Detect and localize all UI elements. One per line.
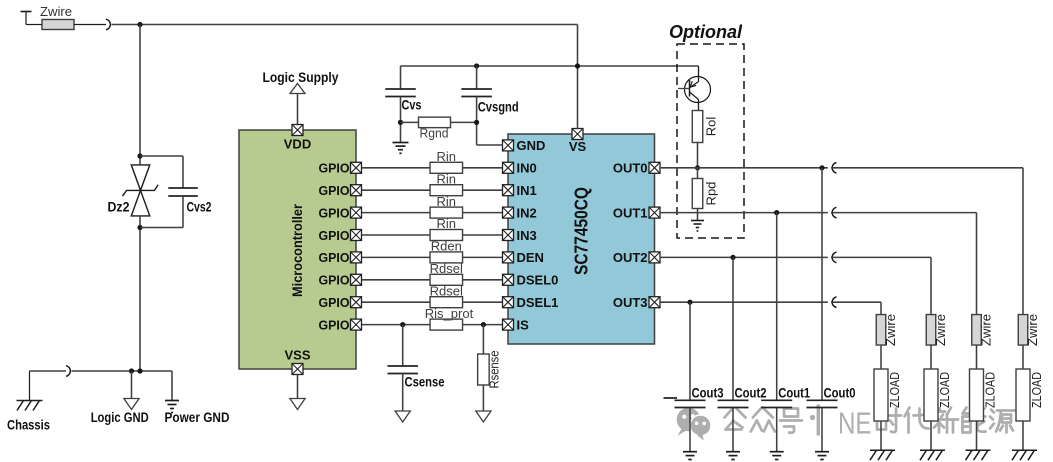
svg-text:DSEL0: DSEL0 — [517, 273, 559, 288]
svg-text:Rden: Rden — [431, 239, 462, 254]
svg-text:Rdsel: Rdsel — [430, 283, 463, 298]
svg-text:Rin: Rin — [437, 216, 457, 231]
svg-text:Zwire: Zwire — [1025, 314, 1040, 346]
svg-text:GPIO: GPIO — [319, 317, 350, 332]
svg-text:Chassis: Chassis — [7, 416, 50, 432]
svg-text:Logic Supply: Logic Supply — [263, 70, 339, 85]
svg-text:Rin: Rin — [437, 149, 457, 164]
svg-text:Cout1: Cout1 — [778, 386, 810, 401]
svg-text:GPIO: GPIO — [319, 250, 350, 265]
svg-text:Rin: Rin — [437, 194, 457, 209]
svg-text:Ris_prot: Ris_prot — [425, 306, 474, 321]
svg-text:IN3: IN3 — [517, 228, 537, 243]
svg-text:Logic GND: Logic GND — [91, 409, 149, 425]
svg-text:GPIO: GPIO — [319, 205, 350, 220]
svg-text:DEN: DEN — [517, 250, 544, 265]
svg-text:Rin: Rin — [437, 171, 457, 186]
svg-text:VSS: VSS — [284, 348, 310, 363]
svg-text:Zwire: Zwire — [979, 314, 994, 346]
svg-text:VDD: VDD — [284, 137, 311, 152]
svg-text:Power GND: Power GND — [165, 409, 230, 425]
svg-text:ZLOAD: ZLOAD — [983, 372, 998, 408]
svg-text:Rol: Rol — [704, 117, 719, 137]
svg-text:Cout2: Cout2 — [735, 386, 767, 401]
svg-text:ZLOAD: ZLOAD — [1029, 372, 1044, 408]
svg-text:ZLOAD: ZLOAD — [937, 372, 952, 408]
svg-text:Zwire: Zwire — [933, 314, 948, 346]
svg-text:IN2: IN2 — [517, 205, 537, 220]
svg-text:GPIO: GPIO — [319, 295, 350, 310]
svg-text:Rpd: Rpd — [704, 182, 719, 206]
svg-text:OUT3: OUT3 — [613, 295, 648, 310]
svg-text:DSEL1: DSEL1 — [517, 295, 559, 310]
svg-text:Rgnd: Rgnd — [420, 126, 449, 141]
svg-text:VS: VS — [569, 139, 587, 154]
svg-text:OUT2: OUT2 — [613, 250, 648, 265]
svg-text:Rsense: Rsense — [486, 351, 501, 389]
svg-text:Cvs2: Cvs2 — [187, 199, 212, 215]
svg-text:GPIO: GPIO — [319, 161, 350, 176]
svg-text:IN1: IN1 — [517, 183, 537, 198]
svg-text:Microcontroller: Microcontroller — [289, 203, 305, 297]
svg-text:GPIO: GPIO — [319, 228, 350, 243]
svg-text:GND: GND — [517, 138, 546, 153]
svg-text:Rdsel: Rdsel — [430, 261, 463, 276]
svg-text:SC77450CQ: SC77450CQ — [571, 187, 591, 275]
svg-text:GPIO: GPIO — [319, 273, 350, 288]
svg-text:Zwire: Zwire — [40, 4, 72, 19]
svg-text:NE: NE — [838, 406, 872, 441]
svg-text:Optional: Optional — [669, 22, 743, 42]
svg-text:Cvs: Cvs — [402, 97, 422, 113]
svg-text:Zwire: Zwire — [883, 314, 898, 346]
svg-text:OUT1: OUT1 — [613, 205, 648, 220]
svg-text:ZLOAD: ZLOAD — [887, 372, 902, 408]
svg-text:IS: IS — [517, 317, 530, 332]
svg-text:Cout3: Cout3 — [692, 386, 724, 401]
svg-text:OUT0: OUT0 — [613, 161, 648, 176]
svg-text:Csense: Csense — [405, 374, 445, 390]
svg-text:Cout0: Cout0 — [824, 386, 856, 401]
svg-text:Dz2: Dz2 — [108, 199, 130, 215]
svg-text:IN0: IN0 — [517, 161, 537, 176]
svg-text:Cvsgnd: Cvsgnd — [478, 99, 519, 115]
svg-text:GPIO: GPIO — [319, 183, 350, 198]
